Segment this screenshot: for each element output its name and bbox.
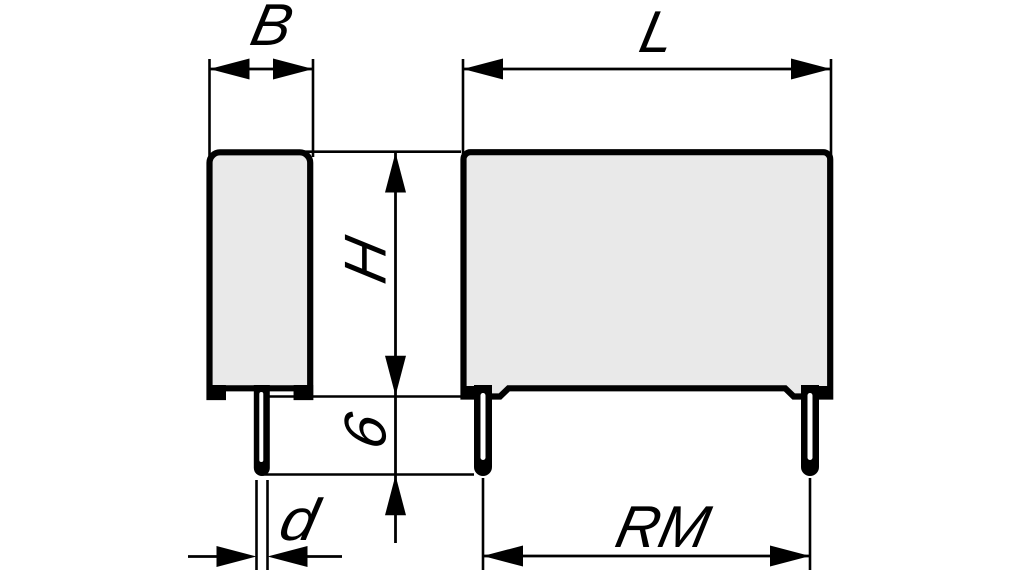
side view left foot fill [207,385,226,400]
dimension 6 bottom reference line [262,473,474,476]
capacitor side view body [210,152,311,397]
front view right foot fill [816,386,832,399]
dimension d left shaft [188,555,218,558]
front view right lead [801,385,819,476]
dimension H arrowhead top [385,153,406,193]
side view lead bore [259,392,263,462]
dimension d arrowhead left [217,546,257,567]
dimension H arrowhead bottom [385,356,406,396]
dimension L extension line left [462,59,465,157]
side view right foot fill [294,385,314,400]
side view lead [254,385,270,476]
dimension B line [210,68,314,71]
dimension 6 line [394,397,397,475]
svg-text:L: L [634,0,681,65]
dimension RM line [483,555,810,558]
dimension H top reference line [300,150,461,153]
svg-text:B: B [245,0,298,58]
front view left lead bore [481,393,486,460]
dimension 6 arrowhead [385,475,406,515]
dimension d right shaft [305,555,342,558]
dimension d extension line right [266,480,269,570]
dimension d extension line left [255,480,258,570]
dimension 6 tail line [394,475,397,544]
dimension L arrowhead right [791,59,831,80]
front view right lead bore [808,393,813,460]
dimension RM extension line left [482,478,485,570]
dimension H bottom reference line [268,395,461,398]
dimension L arrowhead left [463,59,503,80]
dimension d arrowhead right [268,546,308,567]
dimension B arrowhead left [210,59,250,80]
dimension B arrowhead right [273,59,313,80]
svg-text:6: 6 [332,407,398,455]
dimension RM arrowhead right [770,546,810,567]
dimension L extension line right [830,59,833,157]
dimension B extension line left [208,59,211,157]
svg-text:d: d [274,487,326,553]
dimension H line [394,152,397,397]
dimension RM arrowhead left [483,546,523,567]
front view left foot fill [462,386,477,399]
svg-text:H: H [332,231,398,289]
dimension B extension line right [312,59,315,157]
svg-text:RM: RM [610,494,716,560]
front view left lead [474,385,492,476]
dimension RM extension line right [809,478,812,570]
dimension L line [463,68,831,71]
front view body [464,152,831,396]
